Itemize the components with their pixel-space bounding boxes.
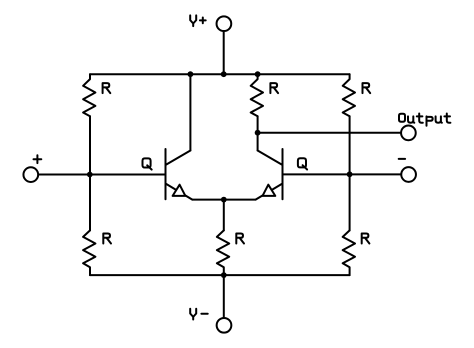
resistor R1 (top left) — [83, 74, 95, 116]
wire V- lead — [223, 275, 225, 318]
O — [399, 114, 405, 122]
junction node plus input — [87, 172, 93, 178]
wire left branch mid — [89, 116, 91, 174]
label R1 value — [103, 83, 111, 93]
t — [417, 114, 423, 123]
Q2 base bar — [282, 149, 284, 199]
wire plus input line — [38, 174, 165, 176]
resistor R6 (bottom right) — [343, 230, 355, 275]
label R6 value — [362, 234, 370, 244]
label R2 value — [270, 83, 278, 93]
Q1 emitter diagonal — [166, 184, 193, 200]
wire output line — [258, 132, 401, 134]
Q1 collector diagonal — [166, 151, 191, 166]
junction node emitters — [221, 197, 227, 203]
junction node output — [255, 130, 261, 136]
label R3 value — [363, 83, 371, 93]
transistor Q2 (right) — [224, 133, 283, 200]
Q2 emitter arrow — [263, 185, 276, 196]
label Q1 designator — [143, 158, 152, 169]
terminal minus input circle — [401, 167, 416, 182]
resistor R2 (top middle) — [251, 74, 263, 116]
Q2 emitter wire — [224, 199, 256, 201]
label plus (left input) — [34, 155, 42, 163]
terminal V- circle — [217, 318, 232, 333]
Q2 collector diagonal — [258, 151, 283, 166]
transistor Q1 (left) — [166, 74, 224, 199]
label Q2 designator — [298, 158, 307, 169]
wire bottom rail — [90, 274, 350, 276]
resistor R3 (top right) — [343, 74, 355, 116]
wire R2 to output node — [257, 116, 259, 133]
terminal plus input circle — [23, 167, 38, 182]
resistor R4 (bottom left) — [89, 175, 91, 231]
junction node minus input — [347, 171, 353, 177]
p — [427, 116, 433, 125]
u — [408, 116, 414, 122]
junction node R2 / rail — [255, 71, 261, 77]
resistor R5 (bottom middle, emitter tail) — [223, 200, 225, 231]
Q2 collector lead — [257, 133, 259, 151]
label V- — [190, 309, 208, 320]
u — [436, 116, 442, 122]
junction node V+ / rail — [221, 71, 227, 77]
Q1 emitter wire — [192, 199, 224, 201]
Q2 emitter diagonal — [256, 184, 283, 200]
label R5 value — [236, 234, 244, 244]
wire V+ lead — [223, 31, 225, 74]
Q1 collector lead — [189, 74, 191, 150]
wire right branch mid — [349, 116, 351, 230]
terminal Output circle — [401, 126, 416, 141]
label V+ — [190, 15, 206, 26]
junction node Q1 collector / rail — [188, 71, 194, 77]
Q1 emitter arrow — [173, 185, 186, 196]
terminal V+ circle — [217, 16, 232, 31]
wire minus input line — [283, 173, 402, 175]
label Output — [399, 114, 450, 126]
wire top supply rail — [90, 73, 350, 75]
Q1 base bar — [165, 149, 167, 199]
label R4 value — [103, 234, 111, 244]
label minus (right input) — [399, 158, 405, 160]
junction node tail / bottom rail — [221, 272, 227, 278]
t — [444, 114, 450, 123]
